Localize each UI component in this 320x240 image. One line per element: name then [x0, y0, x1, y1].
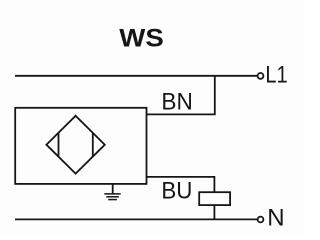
proximity sensor diamond symbol — [46, 116, 104, 174]
wire from load to N line — [213, 205, 215, 219]
svg-text:N: N — [267, 204, 284, 231]
wire L1 supply line — [15, 75, 257, 77]
terminal circle L1 — [258, 73, 264, 79]
wire BN vertical drop from L1 — [214, 76, 216, 115]
ground stem — [112, 184, 114, 194]
terminal circle N — [258, 217, 264, 223]
wire BN horizontal to sensor box — [147, 113, 216, 115]
load resistor rectangle — [199, 192, 230, 205]
svg-text:L1: L1 — [265, 62, 287, 89]
ground bar 1 — [104, 193, 120, 195]
ground bar 3 — [108, 199, 117, 201]
wire BU horizontal from sensor box — [147, 176, 216, 178]
wire BU vertical to load — [213, 177, 215, 193]
svg-text:BU: BU — [161, 177, 192, 204]
diamond right chord — [92, 133, 94, 157]
ground bar 2 — [106, 196, 119, 198]
wire N neutral line — [15, 218, 257, 220]
svg-text:WS: WS — [119, 25, 164, 53]
sensor box outline — [15, 108, 146, 184]
svg-text:BN: BN — [161, 88, 192, 115]
diamond left chord — [58, 133, 60, 157]
